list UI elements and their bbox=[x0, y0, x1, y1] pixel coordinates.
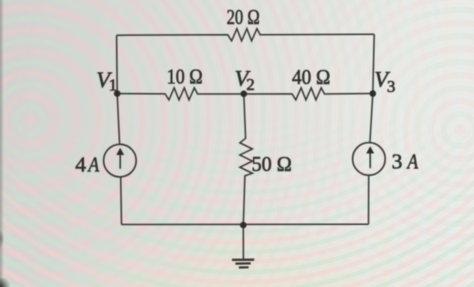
svg-text:20 Ω: 20 Ω bbox=[227, 5, 260, 29]
svg-text:A: A bbox=[87, 152, 100, 176]
svg-text:50 Ω: 50 Ω bbox=[252, 152, 292, 176]
svg-text:A: A bbox=[406, 150, 419, 174]
svg-text:3: 3 bbox=[387, 77, 396, 96]
svg-text:3: 3 bbox=[392, 150, 403, 174]
svg-text:4: 4 bbox=[75, 152, 86, 176]
svg-text:1: 1 bbox=[109, 76, 118, 95]
svg-text:10 Ω: 10 Ω bbox=[167, 65, 203, 89]
svg-text:40 Ω: 40 Ω bbox=[292, 65, 330, 89]
svg-text:2: 2 bbox=[246, 75, 255, 94]
